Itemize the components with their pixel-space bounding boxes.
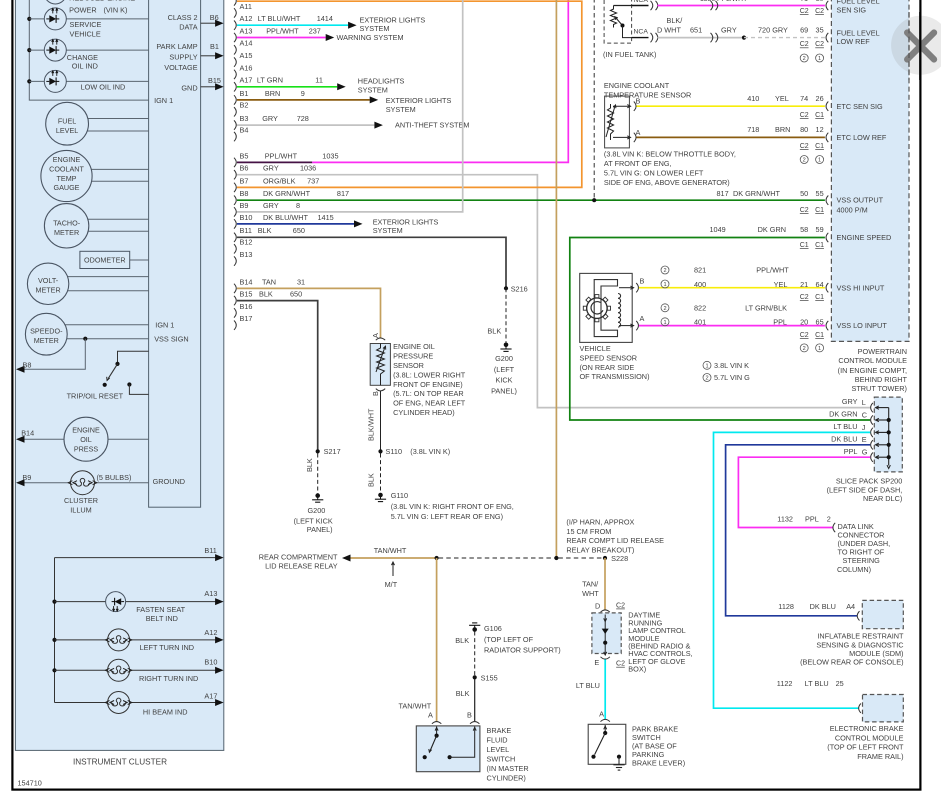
svg-text:4000 P/M: 4000 P/M (837, 205, 868, 214)
engine coolant temperature sensor box (605, 96, 630, 148)
svg-text:C1: C1 (800, 242, 809, 249)
svg-text:821: 821 (694, 266, 706, 275)
arrow B11 row (215, 554, 224, 561)
svg-text:BEHIND RIGHT: BEHIND RIGHT (855, 375, 908, 384)
drl pin E bracket (601, 657, 610, 659)
svg-text:1: 1 (705, 363, 708, 369)
svg-text:ENGINE COOLANT: ENGINE COOLANT (604, 81, 670, 90)
svg-text:REDUCED ENGINE: REDUCED ENGINE (69, 0, 135, 2)
wire park lamp arrow (201, 55, 216, 57)
node splice on vss output wire (592, 198, 596, 202)
svg-text:A: A (640, 314, 645, 323)
svg-text:TAN/WHT: TAN/WHT (399, 701, 432, 710)
wire right turn row (55, 669, 216, 671)
svg-text:C2: C2 (815, 41, 824, 48)
svg-text:ETC LOW REF: ETC LOW REF (837, 133, 887, 142)
svg-text:VOLT-: VOLT- (38, 276, 59, 285)
svg-text:(ON REAR SIDE: (ON REAR SIDE (580, 363, 635, 372)
svg-text:GRY: GRY (263, 201, 279, 210)
svg-text:5.7L VIN G: ON LOWER LEFT: 5.7L VIN G: ON LOWER LEFT (604, 168, 704, 177)
wire S217 to G200 dashed (317, 454, 319, 494)
wire B8 dk grn/wht to PCM (237, 199, 825, 201)
node trip reset pivot (115, 362, 119, 366)
arrow exterior lights (B1) (370, 96, 379, 103)
label M/T arrow (392, 564, 394, 577)
svg-text:A13: A13 (240, 26, 253, 35)
svg-text:RELAY BREAKOUT): RELAY BREAKOUT) (566, 546, 634, 555)
wire B5 dark purple segment (237, 161, 312, 163)
ground G110 (375, 493, 386, 502)
label circled1 401 PPL 20 65 (661, 318, 669, 326)
label circled 2 1 (row2) (800, 54, 808, 62)
svg-text:G200: G200 (307, 506, 325, 515)
svg-text:BLK: BLK (487, 327, 501, 336)
svg-text:1128: 1128 (778, 602, 794, 611)
instrument cluster inner label box (149, 0, 201, 507)
wire etc pin B arrow (613, 105, 630, 107)
svg-text:EXTERIOR LIGHTS: EXTERIOR LIGHTS (373, 217, 439, 226)
svg-text:S216: S216 (511, 284, 528, 293)
wire indicator ground bus bottom (54, 558, 56, 703)
wire G106 to S155 dashed (474, 632, 476, 676)
svg-text:DK BLU/WHT: DK BLU/WHT (263, 213, 309, 222)
wire oil sensor B to S110 (380, 391, 382, 452)
svg-text:B1: B1 (240, 89, 249, 98)
svg-text:C2: C2 (800, 143, 809, 150)
svg-text:SYSTEM: SYSTEM (386, 105, 416, 114)
svg-text:CONTROL MODULE: CONTROL MODULE (835, 733, 904, 742)
engine oil pressure sensor box (370, 344, 390, 386)
svg-text:BOX): BOX) (628, 665, 646, 674)
svg-text:LT BLU: LT BLU (576, 681, 600, 690)
svg-text:SERVICE: SERVICE (70, 20, 102, 29)
svg-text:OF ENG, NEAR LEFT: OF ENG, NEAR LEFT (393, 399, 466, 408)
svg-text:55: 55 (816, 189, 824, 198)
node bus fasten seat belt (52, 600, 56, 604)
arrow A12 row (215, 636, 224, 643)
svg-text:651: 651 (690, 26, 702, 35)
odometer wire (130, 259, 149, 261)
svg-text:A13: A13 (204, 589, 217, 598)
splice S110 (378, 449, 382, 453)
svg-text:B9: B9 (22, 473, 31, 482)
arrow A17 row (215, 699, 224, 706)
etc pin A bracket (634, 133, 636, 142)
powertrain control module box (831, 0, 909, 341)
wire dashed breakout segment (439, 557, 555, 559)
svg-text:SYSTEM: SYSTEM (360, 24, 390, 33)
park brake switch arm (604, 725, 606, 732)
svg-text:1415: 1415 (318, 213, 334, 222)
svg-text:C2: C2 (800, 112, 809, 119)
pin A13 connector (234, 33, 236, 42)
wire change oil indicator (29, 49, 148, 51)
svg-text:TEMPERATURE SENSOR: TEMPERATURE SENSOR (604, 90, 691, 99)
svg-text:B14: B14 (240, 277, 253, 286)
svg-text:DK BLU: DK BLU (831, 434, 857, 443)
svg-text:B5: B5 (240, 151, 249, 160)
svg-text:SIDE OF ENG, ABOVE GENERATOR): SIDE OF ENG, ABOVE GENERATOR) (604, 178, 730, 187)
svg-text:B1: B1 (210, 42, 219, 51)
svg-text:LEVEL: LEVEL (56, 126, 78, 135)
svg-text:A11: A11 (240, 2, 252, 11)
arrow B9 out left (16, 479, 25, 486)
svg-text:B12: B12 (240, 238, 253, 247)
arrow anti-theft system (374, 122, 383, 129)
arrow class2 data (215, 20, 224, 27)
svg-text:PANEL): PANEL) (491, 386, 517, 395)
svg-text:PPL/WHT: PPL/WHT (266, 26, 299, 35)
svg-text:2: 2 (705, 376, 708, 382)
svg-text:B4: B4 (240, 126, 249, 135)
wire fuel sender top lead outside (632, 5, 649, 7)
wire engine oil press left (24, 438, 87, 440)
node trip reset contact right (127, 382, 131, 386)
svg-text:REAR COMPARTMENT: REAR COMPARTMENT (259, 552, 338, 561)
vss pin B bracket (636, 283, 638, 292)
pcm pin bracket engine speed (826, 233, 828, 242)
vehicle speed sensor box (580, 273, 633, 342)
svg-text:GRY: GRY (263, 164, 279, 173)
svg-text:2: 2 (803, 346, 806, 352)
wire lt blu J to EBCM (714, 432, 871, 708)
svg-text:(3.8L VIN K: BELOW THROTTLE BO: (3.8L VIN K: BELOW THROTTLE BODY, (604, 150, 736, 159)
svg-text:A12: A12 (204, 628, 217, 637)
svg-text:LOW REF: LOW REF (837, 37, 871, 46)
svg-text:DATA: DATA (179, 23, 198, 32)
wire rear compartment relay tan (350, 557, 436, 559)
electronic brake control module box (863, 695, 904, 722)
splice S217 (316, 449, 320, 453)
pcm dashed border over close button (908, 12, 910, 80)
label circled 2 1 (row8) (800, 344, 808, 352)
pin A14 connector (234, 45, 236, 54)
svg-text:PPL/WHT: PPL/WHT (756, 266, 789, 275)
svg-text:TEMP: TEMP (57, 174, 77, 183)
svg-text:BLK: BLK (305, 458, 314, 472)
svg-text:(I/P HARN, APPROX: (I/P HARN, APPROX (566, 517, 634, 526)
svg-text:PPL: PPL (844, 447, 858, 456)
pin B8 connector (234, 196, 236, 205)
svg-text:SEN SIG: SEN SIG (837, 5, 867, 14)
pin A12 connector (234, 21, 236, 30)
svg-text:58: 58 (800, 225, 808, 234)
wire dashed to S228 (558, 557, 603, 559)
pin B3 connector (234, 120, 236, 129)
svg-text:PPL/WHT: PPL/WHT (265, 151, 298, 160)
arrow B8 out left (16, 366, 25, 373)
svg-text:ANTI-THEFT SYSTEM: ANTI-THEFT SYSTEM (395, 121, 469, 130)
svg-text:DK GRN: DK GRN (758, 225, 786, 234)
node bus junction low oil (27, 79, 31, 83)
slice pack pin C (DK GRN) (877, 419, 889, 421)
svg-text:BLK: BLK (258, 226, 272, 235)
svg-text:COLUMN): COLUMN) (837, 565, 871, 574)
svg-text:LID RELEASE RELAY: LID RELEASE RELAY (265, 562, 338, 571)
svg-text:21: 21 (800, 280, 808, 289)
svg-text:65: 65 (816, 318, 824, 327)
wire B5 ppl/wht to top (312, 0, 568, 162)
svg-text:400: 400 (694, 280, 706, 289)
svg-text:2: 2 (827, 515, 831, 524)
svg-text:(TOP OF LEFT FRONT: (TOP OF LEFT FRONT (827, 743, 904, 752)
svg-text:12: 12 (816, 125, 824, 134)
svg-text:B: B (640, 276, 645, 285)
svg-text:(IN ENGINE COMPT,: (IN ENGINE COMPT, (838, 366, 907, 375)
svg-text:728: 728 (297, 114, 309, 123)
svg-text:S217: S217 (324, 447, 341, 456)
connector pair row2 (711, 33, 713, 42)
svg-text:B11: B11 (240, 226, 252, 235)
svg-text:ELECTRONIC BRAKE: ELECTRONIC BRAKE (830, 724, 904, 733)
svg-text:INSTRUMENT CLUSTER: INSTRUMENT CLUSTER (73, 758, 167, 767)
odometer box (80, 251, 130, 268)
brake switch contact B path (448, 755, 452, 759)
svg-text:822: 822 (694, 304, 706, 313)
svg-text:(5 BULBS): (5 BULBS) (97, 473, 132, 482)
resistor fuel level sender (610, 6, 616, 28)
gauge voltmeter (27, 263, 148, 304)
svg-text:1122: 1122 (777, 679, 793, 688)
wire trip reset top (118, 351, 149, 363)
svg-text:IGN 1: IGN 1 (154, 96, 173, 105)
svg-text:SUPPLY: SUPPLY (169, 53, 197, 62)
node trip reset contact left (103, 383, 107, 387)
svg-text:(5.7L: ON TOP REAR: (5.7L: ON TOP REAR (393, 389, 464, 398)
svg-text:B10: B10 (240, 213, 253, 222)
pcm pin bracket vss lo input (826, 321, 828, 330)
svg-text:401: 401 (694, 318, 706, 327)
svg-text:YEL: YEL (774, 280, 788, 289)
svg-text:TAN/WHT: TAN/WHT (374, 546, 407, 555)
svg-text:20: 20 (800, 318, 808, 327)
label circled2 821 PPL/WHT (661, 266, 669, 274)
svg-text:VEHICLE: VEHICLE (70, 30, 101, 39)
svg-text:SYSTEM: SYSTEM (358, 85, 388, 94)
svg-text:PPL: PPL (805, 515, 819, 524)
svg-text:1: 1 (818, 56, 821, 62)
svg-text:TRIP/OIL RESET: TRIP/OIL RESET (67, 392, 124, 401)
label C2 C1 (row4) (800, 143, 809, 150)
svg-text:A14: A14 (240, 39, 253, 48)
svg-text:TACHO-: TACHO- (53, 219, 81, 228)
svg-text:154710: 154710 (18, 779, 42, 788)
svg-text:C2: C2 (800, 8, 809, 15)
svg-text:AT FRONT OF ENG,: AT FRONT OF ENG, (604, 159, 672, 168)
lamp hi beam ind (105, 692, 131, 714)
pin B14 connector (234, 284, 236, 293)
svg-text:VSS OUTPUT: VSS OUTPUT (837, 196, 884, 205)
svg-text:B16: B16 (240, 302, 253, 311)
arrow A13 row (215, 598, 224, 605)
label circled 2 1 (row4) (800, 156, 808, 164)
svg-text:D WHT: D WHT (657, 26, 681, 35)
svg-text:1: 1 (663, 320, 666, 326)
svg-text:GAUGE: GAUGE (54, 183, 80, 192)
wire cluster illum row (24, 482, 149, 484)
label circled2 822 LT GRN/BLK (661, 304, 669, 312)
svg-text:B: B (467, 711, 472, 720)
brake fluid level switch box (416, 726, 480, 772)
arrow rear compartment relay (342, 555, 351, 562)
svg-text:5.7L VIN G: LEFT REAR OF ENG): 5.7L VIN G: LEFT REAR OF ENG) (391, 512, 503, 521)
node bus junction service vehicle (27, 17, 31, 21)
wire B14 tan to oil sensor (237, 288, 381, 337)
svg-text:DK GRN/WHT: DK GRN/WHT (263, 189, 311, 198)
wire B3 gry (237, 124, 374, 126)
park brake pin A bracket (601, 719, 610, 721)
svg-text:VSS LO INPUT: VSS LO INPUT (837, 321, 888, 330)
arrow headlights system (337, 83, 346, 90)
wire etc low ref brn (637, 136, 825, 138)
node tan trunk junction (554, 556, 558, 560)
brake switch pin A bracket (432, 722, 441, 724)
svg-text:LEVEL: LEVEL (487, 745, 510, 754)
pcm pin bracket vss hi input (826, 283, 828, 292)
gauge engine coolant temp (41, 150, 149, 201)
indicator LED change oil (44, 39, 66, 61)
slice pack pin G (PPL) (877, 456, 889, 458)
inflatable restraint SDM box (862, 600, 903, 628)
lamp cluster illum (68, 471, 96, 495)
svg-text:15 CM FROM: 15 CM FROM (566, 527, 611, 536)
svg-text:69: 69 (800, 26, 808, 35)
node splice row2 (742, 36, 746, 40)
svg-text:A15: A15 (240, 51, 253, 60)
svg-text:GRY: GRY (721, 26, 737, 35)
close button circle (891, 16, 941, 75)
svg-text:SYSTEM: SYSTEM (373, 226, 403, 235)
instrument cluster box (15, 0, 223, 750)
svg-text:A4: A4 (846, 602, 855, 611)
svg-text:STRUT TOWER): STRUT TOWER) (851, 384, 907, 393)
wire S216 to G200 dashed (505, 288, 507, 342)
svg-text:3.8L VIN K: 3.8L VIN K (714, 361, 749, 370)
wire B1 brn (237, 99, 370, 101)
indicator lamp reduced engine power (cut off) (44, 0, 66, 4)
svg-text:CLUSTER: CLUSTER (64, 496, 98, 505)
svg-text:71: 71 (800, 0, 808, 3)
svg-text:1: 1 (818, 346, 821, 352)
etc pin B bracket (634, 102, 636, 111)
svg-text:80: 80 (800, 125, 808, 134)
wire fuel level sen sig ppl (658, 5, 825, 7)
park brake contact ground (617, 755, 621, 759)
svg-text:817: 817 (717, 189, 729, 198)
svg-text:J: J (862, 423, 866, 432)
svg-text:2: 2 (803, 56, 806, 62)
pcm pin bracket etc low ref (826, 133, 828, 142)
svg-text:CYLINDER HEAD): CYLINDER HEAD) (393, 408, 455, 417)
wire low oil indicator (29, 80, 148, 82)
svg-text:2: 2 (803, 158, 806, 164)
pin A17 connector (234, 82, 236, 91)
wire DRL E to park brake lt blu (604, 660, 606, 720)
svg-text:BELT IND: BELT IND (146, 614, 178, 623)
svg-text:RIGHT TURN IND: RIGHT TURN IND (139, 674, 198, 683)
lamp left turn ind (105, 629, 131, 651)
svg-text:(VIN K): (VIN K) (104, 6, 128, 15)
svg-text:C1: C1 (815, 332, 824, 339)
connector pair top row (711, 1, 713, 10)
dlc pin bracket (833, 523, 835, 532)
vss toothed wheel (587, 298, 607, 318)
wire vss lo input ppl (639, 325, 825, 327)
resistor oil pressure sensor (377, 344, 385, 386)
pin A15 connector (234, 57, 236, 66)
label C2 C2 (row2) (800, 41, 809, 48)
svg-text:METER: METER (36, 286, 61, 295)
wire B7 org/blk loop to A10 (237, 1, 582, 187)
svg-text:B9: B9 (240, 201, 249, 210)
pin B12 connector (234, 244, 236, 253)
arrow gnd (215, 83, 224, 90)
svg-text:5.7L VIN G: 5.7L VIN G (714, 373, 750, 382)
svg-text:VSS SIGN: VSS SIGN (154, 334, 188, 343)
pin B4 connector (234, 132, 236, 141)
indicator LED fasten seat belt (106, 592, 126, 612)
svg-text:S155: S155 (481, 673, 498, 682)
wire fuel level low ref dashed gry (744, 37, 825, 39)
label C2 (DRL bottom) (616, 661, 625, 668)
svg-text:50: 50 (800, 189, 808, 198)
wire indicator supply bus (29, 0, 148, 100)
svg-text:B3: B3 (240, 114, 249, 123)
svg-text:C2: C2 (616, 661, 625, 668)
svg-text:A17: A17 (204, 692, 217, 701)
pcm pin bracket etc sen sig (826, 102, 828, 111)
svg-text:PARK LAMP: PARK LAMP (156, 42, 197, 51)
svg-text:POWERTRAIN: POWERTRAIN (858, 347, 907, 356)
svg-text:(TOP LEFT OF: (TOP LEFT OF (484, 635, 534, 644)
svg-text:FRAME RAIL): FRAME RAIL) (857, 752, 903, 761)
svg-text:30: 30 (816, 0, 824, 3)
svg-text:GND: GND (181, 83, 197, 92)
lamp right turn ind (105, 659, 131, 681)
svg-text:C2: C2 (815, 8, 824, 15)
fuel sender wiper arm (616, 18, 623, 26)
svg-text:ENGINE: ENGINE (53, 155, 81, 164)
svg-text:G106: G106 (484, 624, 502, 633)
svg-text:OIL: OIL (80, 435, 92, 444)
svg-text:L: L (862, 398, 866, 407)
svg-text:METER: METER (54, 228, 79, 237)
vss reluctor C-channel (594, 280, 617, 337)
wire B9 gry up (237, 0, 463, 212)
svg-text:FUEL LEVEL: FUEL LEVEL (837, 28, 880, 37)
svg-text:C2: C2 (800, 207, 809, 214)
wire A17 lt grn (237, 86, 337, 88)
slice pack pin L (GRY) (877, 407, 889, 409)
svg-text:YEL: YEL (775, 94, 789, 103)
svg-text:NEAR DLC): NEAR DLC) (863, 494, 902, 503)
svg-text:LT GRN/BLK: LT GRN/BLK (745, 304, 787, 313)
ground G200 (S217) (312, 493, 323, 502)
wire A13 ppl/wht (237, 37, 326, 39)
svg-text:11: 11 (315, 76, 323, 85)
node bus left turn (52, 638, 56, 642)
node splice rear compt lid (435, 556, 439, 560)
svg-text:1049: 1049 (709, 225, 725, 234)
svg-text:SENSOR: SENSOR (393, 361, 424, 370)
svg-text:C1: C1 (815, 207, 824, 214)
svg-text:B17: B17 (240, 314, 253, 323)
svg-text:B2: B2 (240, 101, 249, 110)
wire service vehicle indicator (29, 18, 148, 20)
svg-text:DK GRN: DK GRN (829, 410, 857, 419)
svg-text:C2: C2 (800, 41, 809, 48)
svg-text:POWER: POWER (69, 6, 97, 15)
